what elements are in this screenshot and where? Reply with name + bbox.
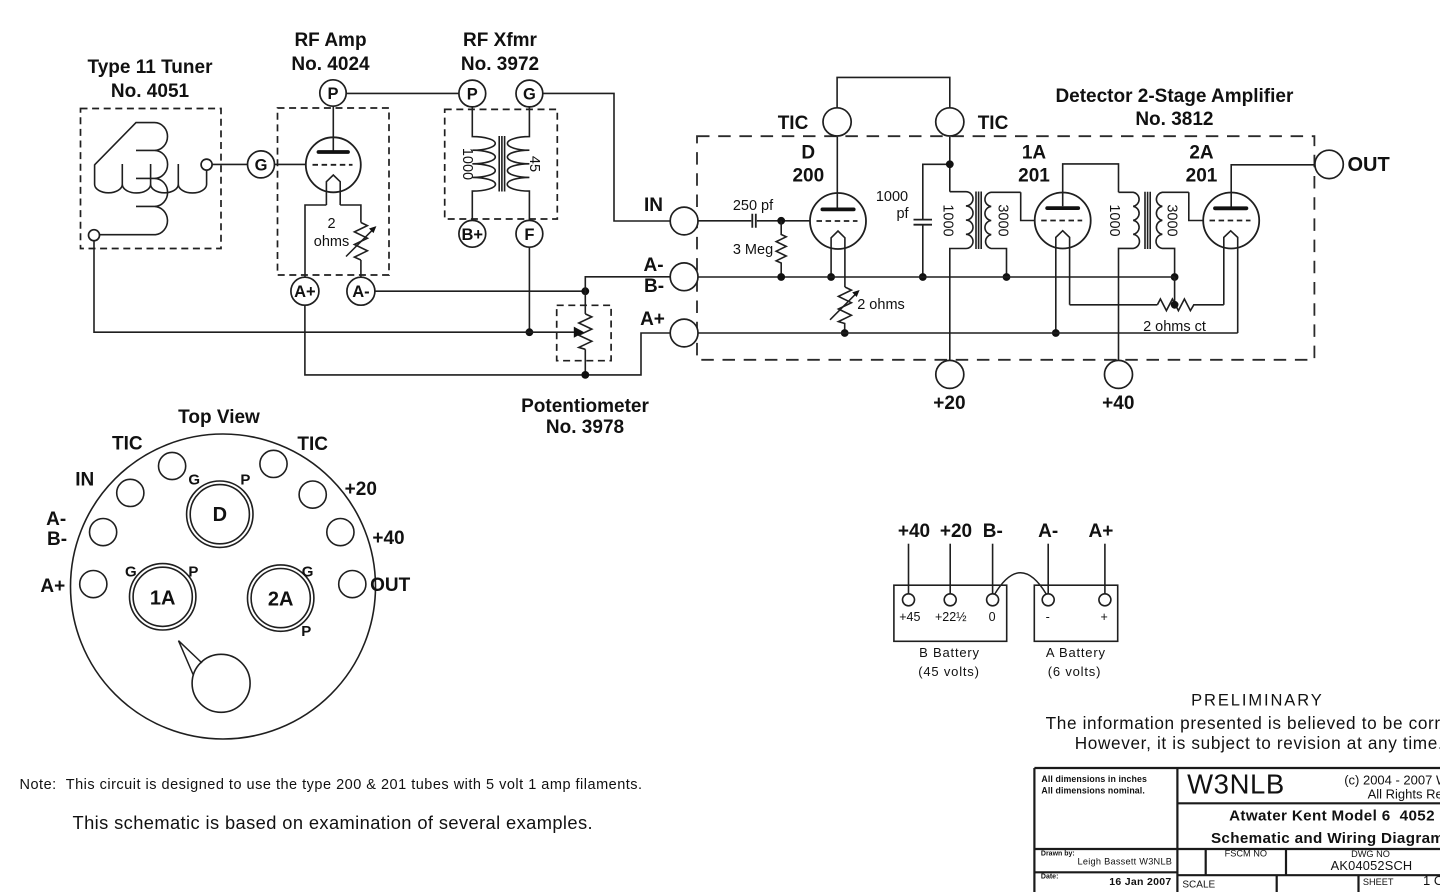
svg-text:TIC: TIC bbox=[297, 434, 328, 455]
B battery box bbox=[894, 585, 1007, 641]
wire: junction to pot element top bbox=[584, 291, 586, 314]
svg-text:+40: +40 bbox=[898, 521, 930, 542]
jumper arc B- to A- bbox=[995, 573, 1047, 595]
svg-text:Potentiometer: Potentiometer bbox=[521, 396, 649, 417]
triode V3 (1A 201) envelope bbox=[1035, 193, 1091, 249]
svg-text:+20: +20 bbox=[345, 479, 377, 500]
svg-text:45: 45 bbox=[526, 156, 542, 172]
svg-text:PRELIMINARY: PRELIMINARY bbox=[1191, 691, 1323, 709]
xfmr primary winding 1000 bbox=[472, 107, 495, 220]
svg-text:+40: +40 bbox=[372, 528, 404, 549]
xfmr T3 secondary winding 3000 bbox=[1156, 192, 1189, 277]
svg-text:No. 4024: No. 4024 bbox=[291, 54, 370, 75]
svg-text:No. 3978: No. 3978 bbox=[546, 417, 624, 438]
wire: V3 heater to resistor R5 bbox=[1070, 304, 1158, 306]
tuner dashed enclosure box bbox=[81, 109, 222, 249]
svg-text:W3NLB: W3NLB bbox=[1187, 769, 1285, 800]
junction: F on wiper rail bbox=[526, 328, 534, 336]
xfmr core bbox=[499, 136, 504, 192]
pin IN bbox=[117, 479, 144, 506]
V3 grid (dashed) bbox=[1041, 220, 1082, 222]
terminal +20 bbox=[936, 360, 964, 388]
xfmr secondary winding 45 bbox=[507, 107, 529, 220]
wire: V4 filament left leg down to heater resistor bbox=[1223, 248, 1225, 305]
svg-text:However, it is subject to revi: However, it is subject to revision at an… bbox=[1075, 733, 1440, 753]
V1 grid (dashed) bbox=[313, 164, 353, 166]
terminal IN bbox=[670, 207, 698, 235]
wire: C2 top to TIC right node bbox=[923, 164, 950, 219]
T3 core bbox=[1145, 192, 1150, 249]
svg-text:Atwater Kent Model 6 4052: Atwater Kent Model 6 4052 bbox=[1229, 807, 1435, 824]
svg-text:+45: +45 bbox=[899, 610, 920, 624]
svg-text:G: G bbox=[302, 564, 314, 581]
svg-text:A-: A- bbox=[46, 509, 66, 530]
svg-text:3 Meg: 3 Meg bbox=[733, 242, 773, 258]
svg-text:No. 4051: No. 4051 bbox=[111, 81, 190, 102]
svg-text:1A: 1A bbox=[1022, 143, 1047, 164]
wire: pot bottom to A+ rail bbox=[584, 349, 586, 375]
resistor R3 3 Meg (grid leak) bbox=[776, 221, 786, 277]
wire: V3 filament left leg to A+ rail bbox=[1055, 248, 1057, 333]
wire: T3 secondary top to V4 grid bbox=[1189, 192, 1203, 220]
svg-text:Note: This circuit is designe: Note: This circuit is designed to use th… bbox=[20, 777, 643, 793]
svg-text:IN: IN bbox=[644, 195, 663, 216]
RF amp dashed enclosure box bbox=[278, 108, 390, 275]
wire: xfmr G to IN terminal bbox=[543, 93, 670, 221]
junction: A- / B- / pot top bbox=[581, 287, 589, 295]
wire: rheostat to A- terminal bbox=[360, 260, 362, 277]
svg-text:G: G bbox=[188, 472, 200, 489]
junction: center tap bbox=[1171, 301, 1179, 309]
svg-text:All dimensions nominal.: All dimensions nominal. bbox=[1041, 785, 1144, 795]
svg-text:1 OF 2: 1 OF 2 bbox=[1423, 873, 1440, 888]
svg-text:The information presented is b: The information presented is believed to… bbox=[1046, 713, 1440, 733]
svg-text:2: 2 bbox=[327, 216, 335, 232]
svg-text:TIC: TIC bbox=[112, 434, 143, 455]
B battery terminal +22½ bbox=[944, 594, 956, 606]
R4 wiper arrow bbox=[830, 293, 857, 320]
svg-text:AK04052SCH: AK04052SCH bbox=[1331, 858, 1413, 873]
svg-text:+40: +40 bbox=[1102, 393, 1134, 414]
svg-text:A Battery: A Battery bbox=[1046, 645, 1106, 660]
svg-text:(c) 2004 - 2007 W3NLB: (c) 2004 - 2007 W3NLB bbox=[1344, 773, 1440, 788]
V3 plate bar bbox=[1047, 206, 1078, 210]
V2 grid (dashed) bbox=[817, 220, 858, 222]
svg-text:A-: A- bbox=[352, 283, 369, 301]
xfmr T2 secondary winding 3000 bbox=[985, 192, 1021, 277]
terminal F bbox=[516, 220, 543, 247]
potentiometer R2 element (zigzag) bbox=[579, 314, 592, 349]
svg-text:Schematic and Wiring Diagrams: Schematic and Wiring Diagrams bbox=[1211, 830, 1440, 847]
svg-text:Date:: Date: bbox=[1041, 874, 1059, 881]
socket D (double circle) bbox=[187, 481, 253, 547]
terminal A+ (RF amp) bbox=[291, 277, 319, 305]
svg-text:A+: A+ bbox=[40, 576, 65, 597]
socket 2A (double circle) bbox=[248, 565, 314, 631]
svg-text:3000: 3000 bbox=[995, 204, 1011, 236]
A battery terminal + bbox=[1099, 594, 1111, 606]
V2 plate bar bbox=[822, 207, 853, 211]
svg-text:B-: B- bbox=[47, 529, 67, 550]
wire: RF amp P to xfmr P bbox=[346, 92, 459, 94]
tuner output node (small circle right) bbox=[201, 159, 212, 170]
svg-text:Drawn by:: Drawn by: bbox=[1041, 850, 1075, 857]
V1 plate bar bbox=[319, 150, 349, 154]
junction: R4 on A+ rail bbox=[841, 329, 849, 337]
alignment knob circle bbox=[192, 654, 250, 712]
svg-text:RF Xfmr: RF Xfmr bbox=[463, 30, 538, 51]
svg-text:B Battery: B Battery bbox=[919, 645, 980, 660]
wire: G terminal to tube grid bbox=[275, 163, 307, 165]
wire: V4 filament right leg to A+ rail end bbox=[1237, 248, 1239, 333]
wire: TIC jumper bbox=[837, 77, 950, 109]
wire: TIC right down to xfmr T2 primary bbox=[949, 137, 951, 192]
svg-text:P: P bbox=[301, 623, 311, 640]
svg-text:SHEET: SHEET bbox=[1363, 877, 1394, 887]
wire: junction up to A-/B- terminal bbox=[585, 277, 670, 291]
svg-text:A+: A+ bbox=[640, 309, 665, 330]
junction: C2 tap on TIC lead bbox=[946, 160, 954, 168]
svg-text:Detector 2-Stage Amplifier: Detector 2-Stage Amplifier bbox=[1055, 86, 1294, 107]
tuner coil L2 (variometer rotor, scalloped row) bbox=[95, 164, 207, 193]
triode V4 (2A 201) envelope bbox=[1203, 193, 1259, 249]
terminal B+ bbox=[459, 220, 486, 247]
svg-text:No. 3812: No. 3812 bbox=[1135, 109, 1213, 130]
svg-text:ohms: ohms bbox=[314, 234, 349, 250]
rheostat R4 2 ohms (zigzag) bbox=[838, 287, 851, 333]
V1 filament bbox=[326, 175, 340, 205]
title block border lines bbox=[1034, 768, 1440, 892]
terminal TIC (right) bbox=[936, 108, 964, 136]
wire: tuner output to G terminal bbox=[212, 163, 247, 165]
svg-text:OUT: OUT bbox=[1348, 154, 1390, 176]
pot wiper arrow bbox=[574, 327, 584, 338]
terminal OUT bbox=[1315, 150, 1343, 178]
terminal A+ (panel) bbox=[670, 319, 698, 347]
svg-text:Top View: Top View bbox=[178, 407, 260, 428]
svg-text:All dimensions in inches: All dimensions in inches bbox=[1041, 774, 1147, 784]
svg-text:No. 3972: No. 3972 bbox=[461, 54, 539, 75]
svg-text:2A: 2A bbox=[1189, 143, 1214, 164]
xfmr T3 primary winding 1000 bbox=[1119, 192, 1140, 360]
tuner bottom node (small circle bottom-left) bbox=[89, 230, 100, 241]
wire: tuner bottom to potentiometer wiper bbox=[94, 241, 577, 333]
svg-text:IN: IN bbox=[75, 470, 94, 491]
wire: V4 plate to OUT bbox=[1231, 165, 1315, 207]
svg-text:P: P bbox=[467, 86, 478, 104]
wire: filament right leg to rheostat bbox=[340, 205, 361, 223]
svg-text:2 ohms: 2 ohms bbox=[857, 297, 905, 313]
xfmr T2 primary winding 1000 bbox=[950, 192, 973, 361]
svg-text:B-: B- bbox=[644, 276, 664, 297]
A battery terminal - bbox=[1042, 594, 1054, 606]
svg-text:1000: 1000 bbox=[876, 189, 908, 205]
wire: P terminal to plate bbox=[332, 106, 334, 151]
svg-text:2A: 2A bbox=[268, 589, 294, 611]
svg-text:A+: A+ bbox=[1088, 521, 1113, 542]
svg-text:+20: +20 bbox=[940, 521, 972, 542]
svg-text:SCALE: SCALE bbox=[1182, 879, 1215, 890]
svg-text:B-: B- bbox=[983, 521, 1003, 542]
terminal A-/B- bbox=[670, 263, 698, 291]
wire: TIC left to plate of V2 bbox=[836, 137, 838, 208]
junction: T2 secondary on A- rail bbox=[1003, 273, 1011, 281]
svg-text:A+: A+ bbox=[294, 283, 316, 301]
svg-text:G: G bbox=[125, 564, 137, 581]
T2 core bbox=[976, 192, 981, 250]
pot dashed enclosure box bbox=[557, 305, 611, 360]
terminal TIC (left) bbox=[823, 108, 851, 136]
A battery box bbox=[1034, 585, 1117, 641]
B battery terminal +45 bbox=[903, 594, 915, 606]
svg-text:A-: A- bbox=[1038, 521, 1058, 542]
pin A+ bbox=[80, 571, 107, 598]
V4 filament bbox=[1224, 231, 1238, 248]
svg-text:All Rights Reserved: All Rights Reserved bbox=[1368, 786, 1440, 801]
triode V1 envelope bbox=[306, 137, 361, 192]
A+ rail (inside detector box) bbox=[698, 332, 1238, 334]
junction: pot bottom on rail bbox=[581, 371, 589, 379]
svg-text:+20: +20 bbox=[933, 393, 965, 414]
junction: C2 on A- rail bbox=[919, 273, 927, 281]
V3 filament bbox=[1056, 231, 1070, 305]
wire: RF amp A+ to bottom rail bbox=[305, 305, 670, 375]
V4 grid (dashed) bbox=[1210, 220, 1251, 222]
svg-text:F: F bbox=[524, 226, 534, 244]
socket 1A (double circle) bbox=[130, 564, 196, 630]
svg-text:201: 201 bbox=[1018, 165, 1050, 186]
B battery terminal 0 bbox=[987, 594, 999, 606]
triode V2 (D 200) envelope bbox=[810, 193, 866, 249]
svg-text:Leigh Bassett W3NLB: Leigh Bassett W3NLB bbox=[1078, 857, 1173, 867]
terminal P (xfmr primary top) bbox=[459, 80, 486, 107]
wire: F to A+ feed rail bbox=[528, 247, 530, 332]
junction: grid leak tap bbox=[777, 217, 785, 225]
svg-text:OUT: OUT bbox=[370, 575, 411, 596]
wire: cap to grid of V2 with junction bbox=[757, 220, 810, 222]
wire: IN to coupling cap bbox=[698, 220, 751, 222]
svg-text:TIC: TIC bbox=[778, 113, 809, 134]
svg-text:250 pf: 250 pf bbox=[733, 198, 774, 214]
pin TIC (upper right) bbox=[260, 450, 287, 477]
svg-text:16 Jan 2007: 16 Jan 2007 bbox=[1109, 876, 1171, 888]
resistor R5 2 ohms ct (zigzag) bbox=[1157, 299, 1223, 311]
detector dashed enclosure box bbox=[697, 136, 1314, 360]
svg-text:B+: B+ bbox=[462, 226, 484, 244]
svg-text:FSCM NO: FSCM NO bbox=[1225, 849, 1267, 859]
pin OUT bbox=[339, 571, 366, 598]
terminal P (RF amp plate) bbox=[320, 80, 346, 106]
svg-text:P: P bbox=[188, 564, 198, 581]
svg-text:RF Amp: RF Amp bbox=[294, 30, 366, 51]
pin A-/B- bbox=[90, 519, 117, 546]
pin +40 bbox=[327, 519, 354, 546]
svg-text:P: P bbox=[240, 472, 250, 489]
junction: V2 filament on A- rail bbox=[827, 273, 835, 281]
junction: grid leak on A- rail bbox=[777, 273, 785, 281]
wire: ct tap from A- rail bbox=[1174, 277, 1176, 305]
A- rail (inside detector box) bbox=[698, 276, 1175, 278]
svg-text:1000: 1000 bbox=[1106, 204, 1122, 236]
svg-text:2 ohms ct: 2 ohms ct bbox=[1143, 319, 1206, 335]
V2 filament bbox=[831, 231, 845, 287]
svg-text:G: G bbox=[255, 157, 268, 175]
wire: filament left leg to A+ bbox=[305, 205, 326, 277]
svg-text:(6 volts): (6 volts) bbox=[1048, 664, 1101, 679]
svg-text:1000: 1000 bbox=[940, 204, 956, 236]
svg-text:+: + bbox=[1101, 610, 1108, 624]
svg-text:0: 0 bbox=[989, 610, 996, 624]
pin +20 bbox=[299, 481, 326, 508]
terminal G (xfmr secondary top) bbox=[516, 80, 543, 107]
pin TIC (upper left) bbox=[159, 452, 186, 479]
capacitor C1 250 pf bbox=[752, 214, 756, 228]
terminal +40 bbox=[1105, 360, 1133, 388]
svg-text:D: D bbox=[801, 143, 815, 164]
svg-text:This schematic is based on exa: This schematic is based on examination o… bbox=[73, 812, 593, 833]
svg-text:201: 201 bbox=[1186, 165, 1218, 186]
svg-text:P: P bbox=[327, 85, 338, 103]
terminal A- (RF amp) bbox=[347, 277, 375, 305]
svg-text:pf: pf bbox=[896, 206, 909, 222]
wire: RF amp A- to pot top junction bbox=[375, 290, 585, 292]
capacitor C2 1000 pf bbox=[914, 220, 933, 225]
rheostat R1 2 ohms (zigzag) bbox=[354, 223, 367, 261]
svg-text:Type 11 Tuner: Type 11 Tuner bbox=[88, 57, 214, 78]
svg-text:D: D bbox=[213, 504, 227, 526]
junction: V3 filament on A+ rail bbox=[1052, 329, 1060, 337]
tuner coil L1 (variometer stator, stacked loops) bbox=[95, 123, 168, 235]
knob pointer wedge bbox=[179, 641, 203, 676]
svg-text:TIC: TIC bbox=[978, 113, 1009, 134]
junction: T3 secondary on A- rail bbox=[1171, 273, 1179, 281]
plug outline circle bbox=[71, 434, 376, 739]
V4 plate bar bbox=[1215, 206, 1246, 210]
R1 wiper arrow bbox=[346, 229, 374, 257]
svg-text:3000: 3000 bbox=[1164, 204, 1180, 236]
svg-text:1A: 1A bbox=[150, 588, 176, 610]
svg-text:G: G bbox=[523, 86, 536, 104]
wire: T2 secondary top to V3 grid bbox=[1021, 192, 1035, 220]
svg-text:+22½: +22½ bbox=[935, 610, 967, 624]
svg-text:200: 200 bbox=[792, 165, 824, 186]
svg-text:1000: 1000 bbox=[459, 148, 475, 180]
RF xfmr dashed enclosure box bbox=[445, 109, 558, 219]
wire: C2 bottom to A- rail bbox=[922, 225, 924, 277]
wire: V3 plate to xfmr T3 primary bbox=[1063, 164, 1119, 206]
svg-text:A-: A- bbox=[643, 255, 663, 276]
svg-text:(45 volts): (45 volts) bbox=[918, 664, 979, 679]
terminal G (RF amp grid) bbox=[248, 151, 275, 178]
svg-text:-: - bbox=[1046, 610, 1050, 624]
wire: V2 filament left leg to A- rail bbox=[830, 249, 832, 278]
